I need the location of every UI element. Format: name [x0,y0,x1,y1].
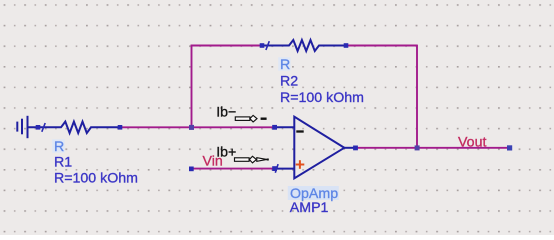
op-amp non-inverting pin stub [275,168,295,170]
wire: feedback vertical right [416,45,418,148]
label R1 value [54,170,138,186]
op-amp inverting pin stub [275,126,295,128]
wire: R1 output to inverting input junction [120,126,275,128]
ground (rotated, at R1 pin 1) [17,116,27,138]
label op-amp palette name [288,186,339,202]
label Ib+ bias current [216,145,236,161]
wire: feedback vertical left [191,45,193,128]
wire: R2 pin 2 to top corner [346,45,417,47]
pin square R1 pin2 [118,125,123,130]
label R1 palette name [52,139,64,155]
resistor R1 [28,122,121,133]
label Ib- bias current [216,104,236,120]
svg-text:R: R [54,139,64,155]
pin square op-amp output [353,146,358,151]
label net Vin [203,154,223,170]
svg-text:R=100 kOhm: R=100 kOhm [54,170,138,186]
wire: Vin to non-inverting input [190,168,275,170]
junction node at output [415,145,420,150]
svg-text:R=100 kOhm: R=100 kOhm [280,90,364,106]
pin square R2 pin1 [260,43,265,48]
op-amp output pin stub [344,147,356,149]
pin square op-amp inverting input [272,125,277,130]
label net Vout [458,135,486,151]
arrow Ib- current direction [235,115,266,122]
node Vout endpoint square [507,145,512,150]
label op-amp designator AMP1 [290,200,329,216]
pin square R1 pin1 [36,125,41,130]
svg-text:AMP1: AMP1 [290,200,329,216]
pin tick R1 pin1 [42,123,45,132]
pin square R2 pin2 [344,43,349,48]
label R2 value [280,90,364,106]
junction node at inverting input [189,125,194,130]
op-amp plus sign [296,160,305,169]
op-amp minus sign [296,130,303,132]
label R2 palette name [278,57,290,73]
arrow Ib+ current direction [235,156,269,163]
svg-text:Vin: Vin [203,154,223,170]
node Vin endpoint square [189,167,194,172]
label R2 designator [280,73,298,89]
wire: output to Vout [355,147,508,149]
svg-text:R2: R2 [280,73,298,89]
svg-text:Ib−: Ib− [216,104,236,120]
wire: top horizontal to R2 pin 1 [191,45,262,47]
svg-text:R1: R1 [54,154,72,170]
op-amp AMP1 triangle [294,117,344,179]
resistor R2 [262,40,346,51]
pin tick op-amp non-inverting input [275,164,278,173]
svg-text:R: R [280,57,290,73]
svg-text:Vout: Vout [458,135,486,151]
pin tick R2 pin1 [266,41,269,50]
pin square op-amp non-inverting input [272,166,277,171]
label R1 designator [54,154,72,170]
